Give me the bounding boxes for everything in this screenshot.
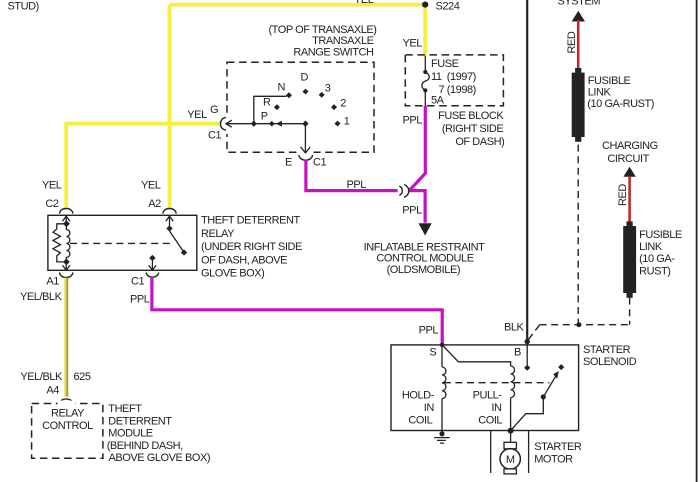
svg-text:HOLD-: HOLD- [402, 390, 435, 402]
svg-text:LINK: LINK [588, 87, 612, 99]
inline connector arcs [399, 186, 402, 195]
wire PPL from fuse down and jog to connector [410, 106, 425, 190]
arrow up at C2 (inside relay) [63, 216, 70, 224]
svg-text:LINK: LINK [639, 241, 663, 253]
contact R [274, 104, 280, 110]
hold-in coil wire top [441, 345, 443, 367]
svg-text:ABOVE GLOVE BOX): ABOVE GLOVE BOX) [109, 452, 211, 464]
svg-text:(10 GA-: (10 GA- [639, 253, 675, 265]
dashed junction dot [576, 322, 581, 327]
svg-text:C1: C1 [313, 156, 326, 168]
relay resistor zigzag branch [53, 224, 66, 262]
relay switch arm end diamond [181, 249, 187, 255]
svg-text:PPL: PPL [403, 115, 423, 127]
fuse F11 stem bottom [424, 92, 426, 105]
splice S224 junction dot [422, 2, 428, 8]
svg-text:7 (1998): 7 (1998) [439, 84, 476, 96]
svg-text:CONTROL: CONTROL [42, 420, 93, 432]
svg-text:3: 3 [325, 82, 331, 94]
ground dot [439, 431, 444, 436]
solenoid S terminal dot [440, 343, 445, 348]
svg-text:MOTOR: MOTOR [534, 453, 573, 465]
connector C2 bracket arc [60, 208, 73, 213]
starter motor M circle [500, 449, 520, 469]
svg-text:D: D [301, 71, 309, 83]
relay coil top junction diamond [63, 220, 70, 227]
wire YEL from S224 down into fuse block [423, 5, 427, 56]
wire BLK battery feed vertical [526, 0, 528, 342]
svg-text:(OLDSMOBILE): (OLDSMOBILE) [387, 264, 460, 276]
wire B terminal stem [526, 343, 528, 365]
fuse F11 terminal dot bottom [423, 88, 427, 92]
wire YEL vertical down to A2 [168, 5, 172, 210]
starter motor bracket right line [528, 431, 530, 474]
fusible link A body [572, 73, 585, 137]
pull-in junction dot [508, 428, 514, 434]
svg-text:YEL: YEL [187, 109, 207, 121]
svg-text:YEL: YEL [141, 179, 161, 191]
svg-text:OF DASH, ABOVE: OF DASH, ABOVE [201, 254, 287, 266]
svg-text:GLOVE BOX): GLOVE BOX) [201, 268, 264, 280]
svg-text:A1: A1 [46, 275, 59, 287]
contact N [286, 92, 292, 98]
svg-text:STARTER: STARTER [583, 344, 631, 356]
svg-text:5A: 5A [431, 95, 445, 107]
hold-in coil wire bottom [441, 399, 443, 431]
svg-text:YEL/BLK: YEL/BLK [20, 291, 63, 303]
dashed wire from fusible link A down [577, 145, 579, 325]
svg-text:PPL: PPL [347, 179, 367, 191]
contact P [269, 121, 275, 127]
connector C1-G bracket arc [220, 118, 226, 130]
svg-text:1: 1 [344, 116, 350, 128]
contact 2 [331, 104, 337, 110]
svg-text:CIRCUIT: CIRCUIT [607, 153, 649, 165]
svg-text:IN: IN [424, 402, 435, 414]
pull-in coil feed from S [442, 345, 510, 366]
svg-text:RUST): RUST) [639, 265, 670, 277]
arrow to inflatable restraint control module [419, 223, 432, 235]
fuse F11 element squiggle [422, 72, 429, 90]
svg-text:COIL: COIL [408, 415, 432, 427]
arrow up to charging circuit [623, 167, 635, 177]
wire PPL from connector to IRCM arrow [410, 191, 426, 223]
svg-text:SYSTEM: SYSTEM [558, 0, 601, 7]
svg-text:SOLENOID: SOLENOID [583, 356, 637, 368]
fuse F11 stem top [424, 56, 426, 70]
svg-text:THEFT DETERRENT: THEFT DETERRENT [201, 215, 301, 227]
svg-text:THEFT: THEFT [108, 403, 142, 415]
wire RED to fusible link A [577, 20, 580, 69]
wire PPL from relay C1 to solenoid S [152, 277, 442, 343]
svg-text:FUSIBLE: FUSIBLE [639, 229, 682, 241]
svg-text:RED: RED [566, 31, 578, 53]
svg-text:RED: RED [617, 184, 629, 206]
svg-text:BLK: BLK [504, 321, 525, 333]
svg-text:P: P [261, 110, 268, 122]
svg-text:(RIGHT SIDE: (RIGHT SIDE [442, 123, 504, 135]
svg-text:2: 2 [340, 98, 346, 110]
contact D [303, 89, 309, 95]
svg-text:FUSIBLE: FUSIBLE [588, 75, 631, 87]
connector E-C1 bracket arc [299, 155, 313, 160]
fusible link A top nub [575, 68, 581, 73]
svg-text:STARTER: STARTER [534, 441, 582, 453]
contact junction diamond (branch) [251, 121, 257, 127]
svg-text:A4: A4 [46, 384, 59, 396]
svg-text:RANGE SWITCH: RANGE SWITCH [293, 46, 374, 58]
svg-text:YEL: YEL [354, 0, 374, 6]
ground G102 symbol [434, 438, 450, 444]
connector A2 bracket arc [163, 208, 176, 213]
fuse block dashed box [405, 55, 503, 106]
starter motor terminal block bottom [504, 469, 516, 474]
fusible link A bottom nub [575, 137, 581, 142]
svg-text:CHARGING: CHARGING [602, 140, 658, 152]
svg-text:TRANSAXLE: TRANSAXLE [312, 35, 373, 47]
svg-text:(BEHIND DASH,: (BEHIND DASH, [107, 440, 183, 452]
svg-text:PULL-: PULL- [473, 390, 503, 402]
relay coil winding branch [66, 224, 70, 262]
svg-text:C1: C1 [131, 275, 144, 287]
svg-text:RELAY: RELAY [201, 228, 235, 240]
hold-in coil bumps [442, 367, 446, 399]
connector C1 bracket arc (relay) [146, 273, 158, 278]
svg-text:S224: S224 [436, 1, 460, 13]
svg-text:STUD): STUD) [8, 1, 39, 13]
svg-text:PPL: PPL [130, 294, 150, 306]
starter motor bracket left line [490, 431, 492, 474]
wire YEL from range switch C1-G left then down to C2 [66, 124, 219, 210]
svg-text:R: R [263, 97, 271, 109]
wire range switch down to E with arrow [304, 124, 306, 153]
connector C1-G arrow (pointing left) [226, 120, 232, 127]
arrow up to system [572, 11, 585, 22]
wire range switch branch up to N [254, 96, 287, 123]
svg-text:11 (1997): 11 (1997) [431, 71, 476, 83]
starter motor terminal block top [504, 442, 516, 449]
svg-text:C2: C2 [45, 198, 58, 210]
svg-text:(10 GA-RUST): (10 GA-RUST) [587, 98, 654, 110]
theft deterrent relay box [48, 215, 197, 270]
relay C1 contact diamond [149, 255, 155, 261]
solenoid plunger path [511, 399, 544, 431]
wire range switch main horizontal [226, 123, 306, 125]
svg-text:(UNDER RIGHT SIDE: (UNDER RIGHT SIDE [201, 241, 302, 253]
wire YEL top horizontal to S224 [170, 3, 426, 7]
svg-text:INFLATABLE RESTRAINT: INFLATABLE RESTRAINT [364, 241, 486, 253]
svg-text:YEL: YEL [403, 37, 423, 49]
starter solenoid box [391, 345, 579, 431]
svg-text:DETERRENT: DETERRENT [108, 416, 172, 428]
svg-text:A2: A2 [148, 198, 161, 210]
svg-text:FUSE: FUSE [431, 58, 459, 70]
relay switch arm [170, 231, 183, 251]
wire PPL from E-C1 down and right [306, 160, 398, 191]
solenoid fixed contact diamond [558, 364, 564, 370]
arrow down at A1 (inside relay) [63, 265, 70, 271]
transaxle range switch dashed box [227, 62, 374, 152]
theft deterrent module dashed box [32, 404, 103, 459]
pull-in coil wire bottom [510, 398, 512, 431]
wire YEL/BLK from A1 to A4 [64, 278, 68, 397]
arrow up at A2 (inside relay) [166, 216, 173, 228]
solenoid moving contact dot [541, 394, 546, 399]
wire RED to fusible link B [628, 176, 631, 222]
svg-text:IN: IN [491, 402, 502, 414]
connector A1 bracket arc [60, 272, 73, 277]
relay switch fixed contact diamond [166, 225, 172, 231]
svg-text:625: 625 [74, 371, 91, 383]
fusible link B bottom nub [627, 293, 633, 298]
svg-text:C1: C1 [208, 130, 221, 142]
svg-text:CONTROL MODULE: CONTROL MODULE [376, 253, 473, 265]
svg-text:S: S [429, 346, 436, 358]
svg-text:YEL/BLK: YEL/BLK [20, 371, 63, 383]
svg-text:G: G [210, 104, 218, 116]
svg-text:E: E [285, 156, 292, 168]
svg-text:PPL: PPL [419, 324, 439, 336]
svg-text:MODULE: MODULE [108, 428, 152, 440]
fusible link B body [623, 226, 636, 293]
svg-text:PPL: PPL [402, 205, 422, 217]
solenoid linkage dashed [444, 382, 550, 384]
fuse F11 terminal dot top [423, 70, 427, 74]
wiper arrow at P [276, 121, 282, 127]
connector A4 bracket arc [59, 399, 73, 403]
svg-text:YEL: YEL [42, 179, 62, 191]
svg-text:M: M [506, 454, 515, 466]
pull-in coil bumps [511, 366, 515, 398]
contact 1 [335, 121, 341, 127]
svg-text:OF DASH): OF DASH) [455, 136, 504, 148]
relay linkage dashed [70, 242, 172, 244]
solenoid switch arm arrowhead [553, 371, 559, 379]
dashed wire horizontal junction run [540, 324, 630, 326]
ground stem at hold-in coil [441, 431, 443, 434]
svg-text:RELAY: RELAY [51, 408, 85, 420]
relay coil bottom junction diamond [63, 259, 70, 266]
dashed wire from fusible link B down [629, 298, 631, 325]
contact 3 [319, 92, 325, 98]
starter motor feed wire [510, 431, 512, 443]
solenoid switch arm [543, 375, 556, 397]
contact junction diamond (to E) [302, 121, 308, 127]
right border line [696, 0, 698, 482]
arrow down at C1 (inside relay) [149, 261, 156, 270]
svg-text:B: B [514, 346, 521, 358]
svg-text:N: N [278, 81, 286, 93]
svg-text:FUSE BLOCK: FUSE BLOCK [438, 110, 504, 122]
B contact diamond [524, 365, 530, 371]
fusible link B top nub [627, 221, 633, 226]
dashed diagonal to BLK junction [528, 325, 539, 340]
BLK junction dot [525, 339, 530, 344]
svg-text:COIL: COIL [478, 415, 502, 427]
